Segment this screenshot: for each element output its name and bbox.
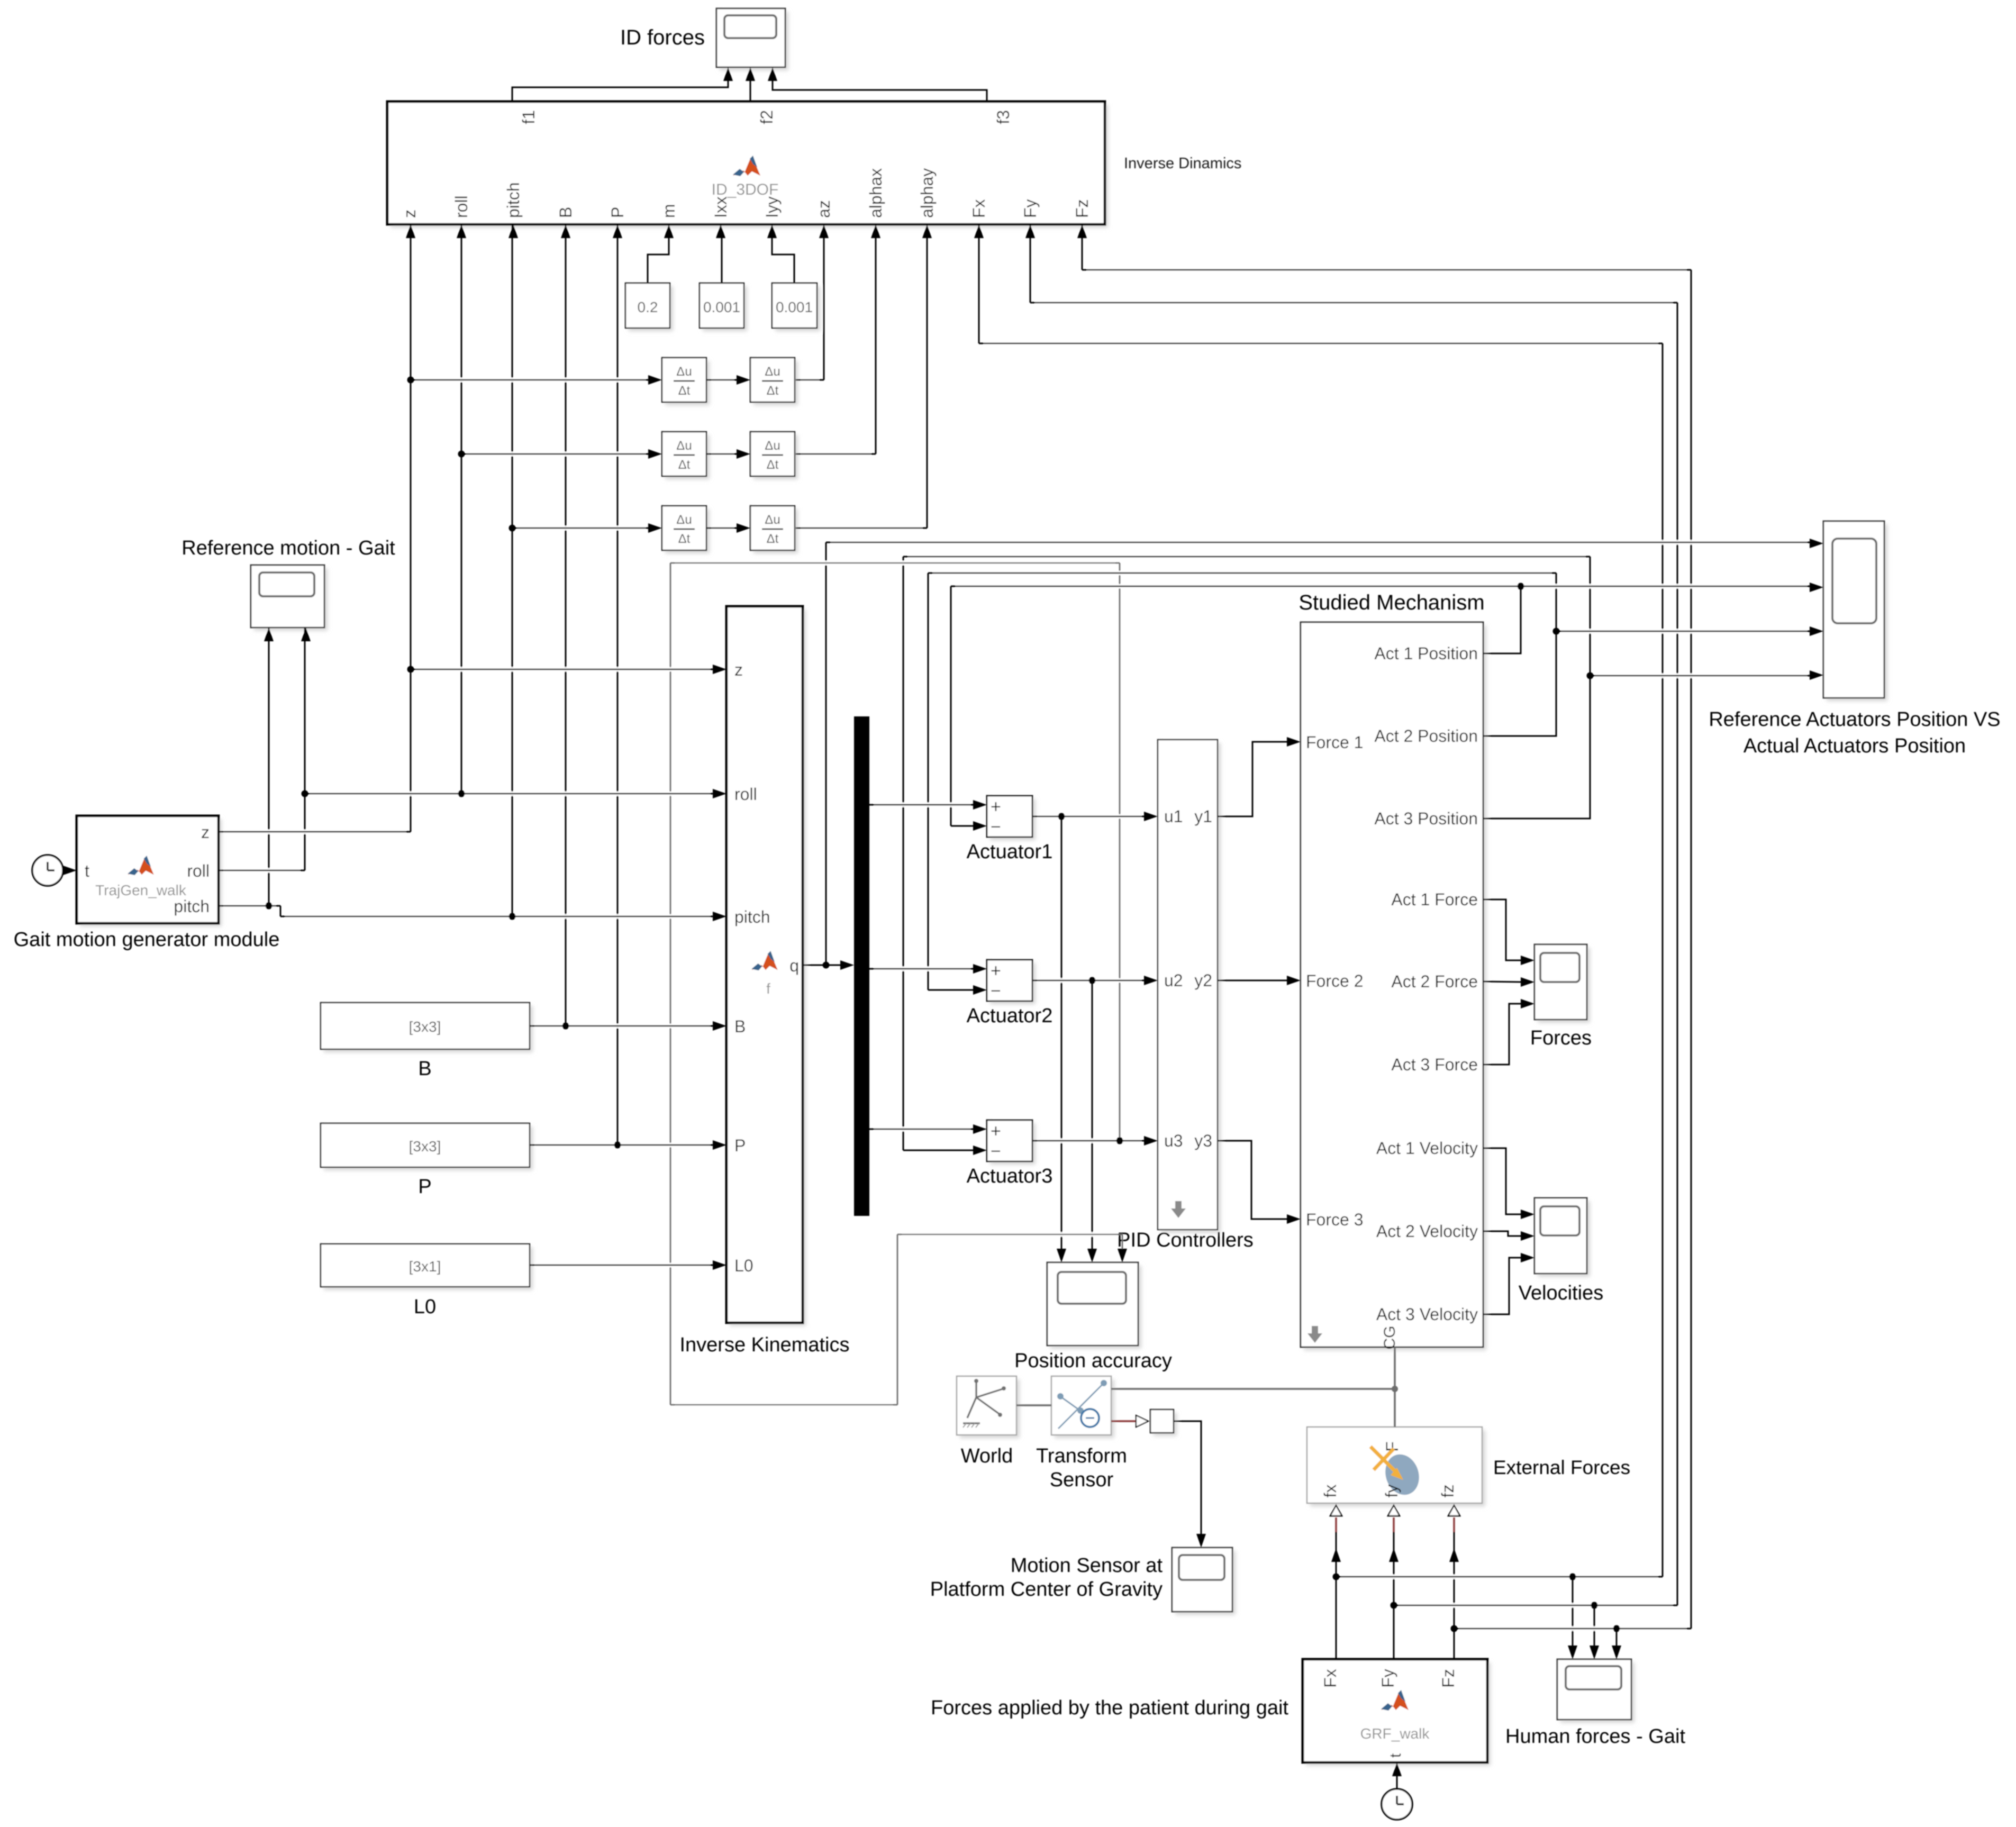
svg-text:L0: L0 <box>414 1296 436 1318</box>
svg-text:P: P <box>608 207 627 218</box>
svg-text:TrajGen_walk: TrajGen_walk <box>95 882 187 898</box>
wire World -> Transform Sensor <box>1016 1404 1051 1406</box>
wire clock -> t <box>63 870 67 871</box>
svg-text:Act 3 Velocity: Act 3 Velocity <box>1376 1305 1478 1324</box>
wire u3 loop to Position accuracy <box>1119 563 1121 1141</box>
wire roll riser (to ID) <box>461 224 462 794</box>
wire 0.001 -> Ixx <box>721 236 723 283</box>
svg-text:Δu: Δu <box>676 513 692 527</box>
derivative row 3 block B <box>753 509 798 553</box>
svg-text:Fz: Fz <box>1073 199 1092 218</box>
svg-text:Act 3 Force: Act 3 Force <box>1391 1055 1478 1074</box>
svg-text:roll: roll <box>452 195 471 218</box>
svg-text:fy: fy <box>1382 1485 1401 1498</box>
svg-text:Fz: Fz <box>1439 1669 1458 1688</box>
constant P [3x3] <box>324 1126 533 1170</box>
svg-text:f3: f3 <box>994 110 1013 124</box>
svg-text:Human forces - Gait: Human forces - Gait <box>1505 1725 1685 1748</box>
svg-text:P: P <box>734 1136 746 1155</box>
constant 0.2 <box>629 286 673 331</box>
svg-text:B: B <box>418 1058 431 1080</box>
wire pitch net <box>268 628 270 906</box>
wire pitch riser (to ID) <box>512 224 513 916</box>
derivative row 2 block B <box>753 435 798 479</box>
svg-text:Fx: Fx <box>1321 1669 1340 1688</box>
wire derivative row output to 1557 <box>823 236 825 380</box>
svg-text:Forces: Forces <box>1530 1027 1592 1049</box>
svg-text:Act 2 Force: Act 2 Force <box>1391 972 1478 991</box>
svg-text:World: World <box>961 1445 1013 1467</box>
wire Act1 Position feedback <box>1483 586 1521 653</box>
svg-text:Δt: Δt <box>678 384 691 398</box>
svg-text:Forces applied by the patient: Forces applied by the patient during gai… <box>931 1697 1288 1719</box>
wire Fy feedback riser <box>1677 303 1678 1605</box>
svg-text:GRF_walk: GRF_walk <box>1360 1725 1430 1742</box>
wire Act 3 Velocity -> Velocities <box>1483 1258 1523 1314</box>
svg-text:Position accuracy: Position accuracy <box>1014 1350 1172 1372</box>
svg-text:Actuator2: Actuator2 <box>967 1005 1053 1027</box>
svg-text:Δt: Δt <box>767 384 779 398</box>
svg-text:B: B <box>556 207 575 218</box>
wire Fx feedback riser <box>1662 343 1664 1577</box>
demux (black bar) <box>854 716 869 1216</box>
svg-text:Gait motion generator module: Gait motion generator module <box>14 929 280 951</box>
svg-text:z: z <box>400 210 419 218</box>
wire 0.2 -> m <box>648 236 669 283</box>
svg-text:pitch: pitch <box>504 182 523 218</box>
wire derivative row output to 1655 <box>875 236 877 454</box>
wire GRF riser x=2525 <box>1336 1532 1337 1659</box>
svg-text:Force 2: Force 2 <box>1306 971 1363 990</box>
svg-text:t: t <box>1387 1753 1404 1758</box>
wire y3 -> Force 3 <box>1218 1141 1289 1219</box>
svg-text:Act 1 Force: Act 1 Force <box>1391 890 1478 909</box>
wire roll net <box>304 628 306 870</box>
svg-text:Fx: Fx <box>969 199 988 218</box>
block: GRF_walk (Forces applied by patient) <box>1306 1662 1491 1766</box>
derivative row 2 block A <box>665 435 710 479</box>
svg-text:ID_3DOF: ID_3DOF <box>712 181 779 198</box>
svg-text:pitch: pitch <box>734 907 770 926</box>
svg-text:Velocities: Velocities <box>1519 1282 1604 1304</box>
constant B [3x3] <box>324 1006 533 1052</box>
constant L0 [3x1] <box>324 1247 533 1290</box>
sum block Actuator3 <box>990 1123 1036 1165</box>
wire Act 2 Velocity -> Velocities <box>1483 1231 1523 1236</box>
svg-text:Δu: Δu <box>676 439 692 453</box>
svg-text:pitch: pitch <box>174 897 210 916</box>
svg-text:[3x3]: [3x3] <box>409 1019 441 1035</box>
block: Inverse Kinematics (f) <box>730 610 806 1326</box>
svg-text:t: t <box>85 861 89 880</box>
svg-text:Δu: Δu <box>765 439 780 453</box>
svg-text:[3x3]: [3x3] <box>409 1138 441 1155</box>
svg-text:roll: roll <box>187 861 210 880</box>
svg-text:Iyy: Iyy <box>762 196 782 218</box>
scope: Motion Sensor at Platform Center of Gravity <box>1175 1551 1236 1615</box>
svg-text:az: az <box>814 200 833 218</box>
wire PS converter -> Motion Sensor scope <box>1174 1421 1201 1536</box>
wire clock -> GRF t <box>1396 1774 1398 1789</box>
svg-text:Fy: Fy <box>1378 1669 1397 1688</box>
svg-text:Actuator3: Actuator3 <box>967 1165 1053 1187</box>
wire y1 -> Force 1 <box>1218 742 1289 816</box>
scope: Reference Actuators Position VS Actual Actuators Position <box>1827 524 1887 701</box>
svg-text:B: B <box>734 1017 746 1036</box>
wire z riser <box>410 224 412 832</box>
block: External Forces <box>1310 1430 1485 1506</box>
svg-text:Fy: Fy <box>1021 199 1040 218</box>
scope: Reference motion - Gait <box>254 568 328 631</box>
block: Inverse Dynamics (ID_3DOF MATLAB function) <box>391 105 1108 228</box>
block: Gait motion generator (TrajGen_walk) <box>80 819 222 926</box>
svg-text:Actuator1: Actuator1 <box>967 841 1053 863</box>
wire Act 3 Force -> Forces <box>1483 1004 1523 1065</box>
svg-text:y1: y1 <box>1194 807 1212 826</box>
wire Act 1 Velocity -> Velocities <box>1483 1148 1523 1214</box>
wire GRF riser x=2748 <box>1454 1532 1455 1659</box>
svg-text:z: z <box>734 660 743 679</box>
wire 0.001 -> Iyy <box>772 236 794 283</box>
scope: Forces <box>1538 948 1590 1023</box>
PS-Simulink converter <box>1154 1413 1177 1436</box>
wire B riser <box>565 224 567 1026</box>
svg-text:alphay: alphay <box>918 168 937 218</box>
svg-text:Inverse Dinamics: Inverse Dinamics <box>1124 155 1241 172</box>
clock (GRF) <box>1382 1789 1412 1820</box>
wire y2 -> Force 2 <box>1218 980 1289 981</box>
sum block Actuator2 <box>990 963 1036 1004</box>
svg-text:ID forces: ID forces <box>620 26 705 49</box>
svg-text:Act 2 Velocity: Act 2 Velocity <box>1376 1222 1478 1241</box>
svg-text:Motion Sensor at: Motion Sensor at <box>1011 1555 1163 1577</box>
derivative row 1 block B <box>753 361 798 405</box>
svg-text:u3: u3 <box>1164 1131 1183 1150</box>
scope: Velocities <box>1538 1201 1590 1277</box>
svg-text:−: − <box>991 1141 1001 1161</box>
svg-text:f: f <box>766 980 770 997</box>
svg-text:Δt: Δt <box>678 458 691 472</box>
wire u2 <box>1092 980 1093 1251</box>
wire Act3 Position feedback <box>1483 557 1590 819</box>
wire GRF riser x=2634 <box>1393 1532 1395 1659</box>
svg-text:P: P <box>418 1176 431 1198</box>
svg-text:Ixx: Ixx <box>711 196 730 218</box>
derivative row 3 block A <box>665 509 710 553</box>
svg-text:y2: y2 <box>1194 971 1212 990</box>
derivative row 1 block A <box>665 361 710 405</box>
wire Act 1 Force -> Forces <box>1483 899 1523 960</box>
wire GRF branch y=3034 <box>1594 1605 1595 1648</box>
svg-text:u2: u2 <box>1164 971 1183 990</box>
svg-text:Inverse Kinematics: Inverse Kinematics <box>679 1334 849 1356</box>
svg-text:Δt: Δt <box>767 458 779 472</box>
svg-text:+: + <box>991 1121 1001 1141</box>
block: PID Controllers <box>1161 743 1221 1233</box>
wire Act 2 Force -> Forces <box>1483 981 1523 982</box>
wire Transform Sensor R -> junction <box>1111 1388 1395 1390</box>
wire q -> big scope (reference) <box>825 542 827 965</box>
svg-text:Δt: Δt <box>678 532 691 546</box>
svg-text:+: + <box>991 961 1001 981</box>
wire f2 -> ID forces <box>750 77 751 102</box>
svg-text:Reference Actuators Position V: Reference Actuators Position VS <box>1709 708 2000 731</box>
svg-text:CG: CG <box>1381 1326 1399 1350</box>
svg-text:Platform Center of Gravity: Platform Center of Gravity <box>930 1578 1163 1601</box>
svg-text:u1: u1 <box>1164 807 1183 826</box>
svg-text:Studied Mechanism: Studied Mechanism <box>1298 591 1484 614</box>
svg-text:[3x1]: [3x1] <box>409 1258 441 1275</box>
svg-text:Act 3 Position: Act 3 Position <box>1374 809 1478 828</box>
svg-text:Δu: Δu <box>765 513 780 527</box>
svg-text:Act 1 Position: Act 1 Position <box>1374 644 1478 663</box>
block: Transform Sensor <box>1055 1379 1114 1438</box>
wire GRF branch y=3078 <box>1616 1629 1618 1648</box>
svg-text:Reference motion - Gait: Reference motion - Gait <box>181 537 395 559</box>
wire Act2 Position feedback <box>1483 573 1556 736</box>
svg-text:f1: f1 <box>519 110 538 124</box>
wire TS physical output (dark red) <box>1111 1420 1136 1422</box>
svg-text:Δu: Δu <box>765 365 780 379</box>
sum block Actuator1 <box>990 799 1036 840</box>
svg-text:External Forces: External Forces <box>1493 1457 1630 1478</box>
svg-text:Actual Actuators Position: Actual Actuators Position <box>1743 735 1966 757</box>
constant 0.001 (Iyy) <box>775 286 820 331</box>
svg-text:Transform: Transform <box>1036 1445 1127 1467</box>
svg-text:0.001: 0.001 <box>776 299 813 315</box>
wire Fz feedback riser <box>1691 270 1692 1629</box>
scope: Position accuracy <box>1050 1266 1141 1349</box>
svg-text:roll: roll <box>734 785 757 804</box>
svg-text:f2: f2 <box>757 110 776 124</box>
wire CG (physical, gray) <box>1394 1347 1396 1389</box>
svg-text:L0: L0 <box>734 1256 753 1275</box>
wire q -> demux <box>803 965 842 966</box>
svg-text:fz: fz <box>1438 1485 1457 1498</box>
svg-text:Act 1 Velocity: Act 1 Velocity <box>1376 1139 1478 1158</box>
svg-text:alphax: alphax <box>866 168 885 218</box>
svg-text:Act 2 Position: Act 2 Position <box>1374 726 1478 746</box>
wire GRF branch y=2980 <box>1572 1577 1574 1648</box>
svg-text:0.2: 0.2 <box>638 299 658 315</box>
svg-text:Sensor: Sensor <box>1050 1469 1114 1491</box>
block: World frame <box>960 1379 1020 1438</box>
wire f1 -> ID forces <box>512 77 728 102</box>
svg-text:fx: fx <box>1321 1485 1340 1498</box>
clock (gait) <box>32 855 63 886</box>
svg-text:z: z <box>201 823 210 842</box>
svg-text:Δt: Δt <box>767 532 779 546</box>
svg-text:Force 3: Force 3 <box>1306 1210 1363 1229</box>
svg-text:0.001: 0.001 <box>703 299 740 315</box>
svg-text:y3: y3 <box>1194 1131 1212 1150</box>
wire junction -> External Forces F <box>1394 1389 1396 1427</box>
svg-text:q: q <box>789 956 799 975</box>
scope: Human forces - Gait <box>1560 1662 1634 1723</box>
wire f3 -> ID forces <box>773 77 987 102</box>
block: Studied Mechanism <box>1304 625 1486 1350</box>
wire derivative row output to 1752 <box>927 236 928 528</box>
svg-text:Δu: Δu <box>676 365 692 379</box>
wire P riser <box>617 224 619 1145</box>
wire u1 <box>1061 816 1063 1251</box>
svg-text:Force 1: Force 1 <box>1306 733 1363 752</box>
svg-text:+: + <box>991 797 1001 817</box>
svg-text:m: m <box>659 204 678 218</box>
svg-text:−: − <box>991 817 1001 837</box>
scope: ID forces <box>720 12 788 70</box>
constant 0.001 (Ixx) <box>703 286 747 331</box>
svg-text:−: − <box>991 981 1001 1001</box>
svg-text:PID Controllers: PID Controllers <box>1117 1229 1254 1251</box>
